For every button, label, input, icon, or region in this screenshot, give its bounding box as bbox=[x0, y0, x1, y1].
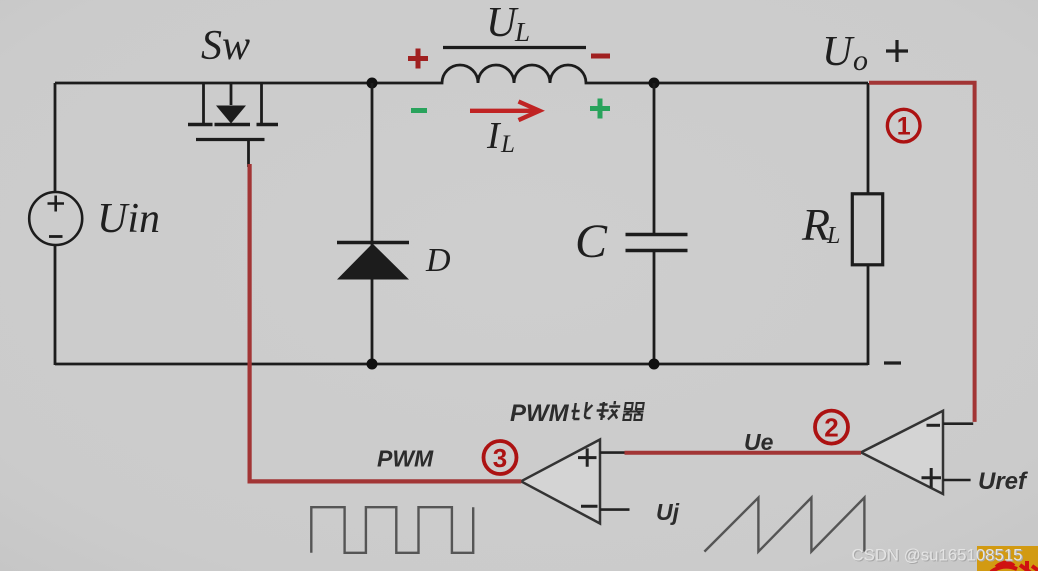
watermark bbox=[852, 547, 1024, 566]
svg-text:Uref: Uref bbox=[978, 468, 1028, 495]
node C bottom junction bbox=[649, 359, 660, 370]
wire top rail with inductor L bbox=[55, 65, 868, 83]
wire red Ue from error amp to PWM comparator bbox=[625, 451, 862, 455]
label PWM comparator title bbox=[510, 400, 645, 427]
wire output branch lower bbox=[867, 266, 870, 365]
wire left branch upper bbox=[54, 83, 57, 192]
svg-text:2: 2 bbox=[824, 413, 838, 443]
label Uo + bbox=[822, 29, 908, 77]
svg-text:L: L bbox=[500, 131, 515, 158]
label IL bbox=[486, 115, 515, 158]
wire capacitor branch upper bbox=[653, 83, 656, 235]
waveform square wave bbox=[311, 507, 473, 553]
waveform sawtooth bbox=[704, 498, 864, 552]
op-amp error comparator bbox=[861, 411, 943, 494]
transistor Sw (MOSFET) bbox=[188, 84, 278, 167]
svg-text:U: U bbox=[822, 29, 855, 75]
logo block bottom right bbox=[977, 546, 1038, 571]
wire capacitor branch lower bbox=[653, 251, 656, 365]
CJK 比 bbox=[570, 402, 592, 419]
wire PWM comparator plus input stub bbox=[600, 451, 625, 454]
label output minus bbox=[884, 361, 901, 364]
capacitor C bbox=[626, 235, 688, 251]
svg-text:Uin: Uin bbox=[97, 196, 160, 242]
voltage source Uin bbox=[29, 192, 82, 245]
svg-text:o: o bbox=[853, 44, 868, 77]
svg-text:I: I bbox=[486, 115, 502, 157]
svg-text:R: R bbox=[801, 199, 830, 250]
wire PWM comparator minus input (Uj) bbox=[600, 508, 630, 511]
svg-text:Sw: Sw bbox=[201, 23, 250, 69]
polarity mark red plus (left of UL) bbox=[408, 49, 428, 69]
wire error amp plus input (Uref) bbox=[943, 479, 971, 482]
node bottom left junction bbox=[367, 359, 378, 370]
svg-text:PWM: PWM bbox=[510, 400, 570, 427]
wire diode branch bbox=[371, 83, 374, 364]
wire error amp minus input bbox=[943, 422, 973, 425]
polarity mark green minus (below left of L) bbox=[411, 108, 427, 113]
node label circled 3 bbox=[484, 441, 517, 474]
node label circled 1 bbox=[887, 109, 920, 142]
svg-text:D: D bbox=[425, 242, 451, 279]
svg-text:CSDN @su165108515: CSDN @su165108515 bbox=[852, 547, 1023, 565]
node label circled 2 bbox=[815, 411, 848, 444]
node A (switch node) bbox=[367, 78, 378, 89]
svg-text:Ue: Ue bbox=[744, 429, 774, 455]
svg-text:L: L bbox=[826, 223, 840, 249]
node C top junction bbox=[649, 78, 660, 89]
diode D bbox=[337, 243, 409, 280]
svg-text:1: 1 bbox=[897, 113, 911, 141]
label UL with bar bbox=[443, 0, 586, 48]
resistor RL bbox=[852, 194, 882, 265]
polarity mark green plus (below right of L) bbox=[590, 99, 610, 119]
op-amp PWM comparator bbox=[521, 440, 600, 524]
wire red PWM output to gate bbox=[250, 164, 522, 481]
wire red feedback from output to error amp bbox=[869, 83, 975, 422]
CJK 器 bbox=[622, 403, 644, 420]
CJK 较 bbox=[595, 401, 621, 420]
svg-text:PWM: PWM bbox=[377, 446, 434, 472]
svg-text:L: L bbox=[514, 17, 530, 47]
current arrow IL bbox=[470, 102, 540, 121]
wire bottom rail bbox=[55, 363, 868, 366]
polarity mark red minus (right of UL) bbox=[591, 54, 610, 59]
svg-text:C: C bbox=[575, 215, 608, 268]
svg-text:Uj: Uj bbox=[656, 499, 680, 525]
wire left branch lower bbox=[54, 245, 57, 365]
wire output branch upper bbox=[867, 83, 870, 195]
label RL bbox=[801, 199, 840, 250]
svg-text:3: 3 bbox=[493, 443, 507, 473]
